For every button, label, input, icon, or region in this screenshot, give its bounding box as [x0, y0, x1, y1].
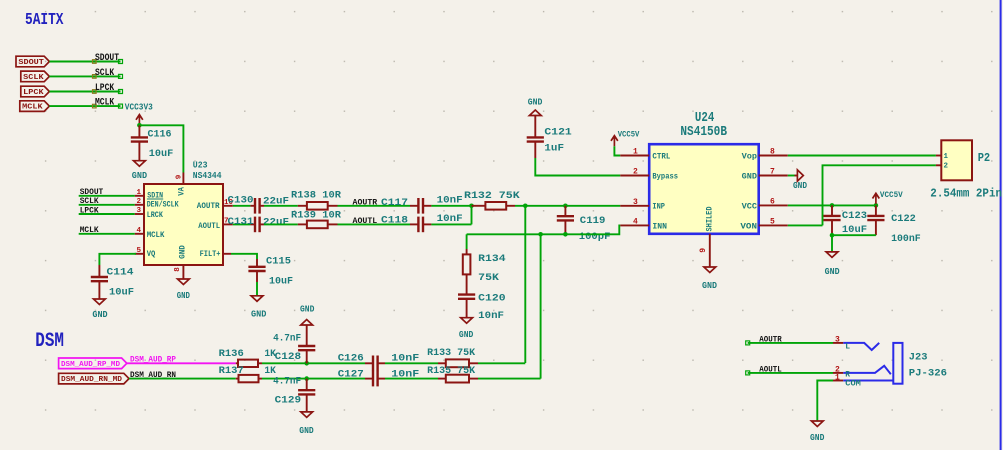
resistor R134	[463, 249, 506, 295]
sheet border right edge	[1000, 0, 1002, 450]
J23 pin 2 stub	[833, 366, 843, 375]
wire C126 to R133	[385, 362, 438, 364]
svg-text:8: 8	[174, 267, 182, 272]
wire U24 Vop to P2 pin1	[788, 155, 936, 157]
svg-text:1: 1	[136, 189, 141, 197]
U23 pin 9 VA stub	[175, 173, 183, 185]
svg-text:SHILED: SHILED	[706, 206, 715, 231]
junction VCC-C122	[874, 203, 879, 208]
audio jack J23 R contact	[843, 366, 891, 374]
svg-text:GND: GND	[92, 309, 108, 320]
junction INN-R135	[538, 232, 543, 237]
capacitor C120	[458, 293, 506, 322]
audio jack J23 COM contact	[843, 380, 893, 382]
svg-text:GND: GND	[825, 266, 840, 277]
J23 pin 3 stub	[833, 336, 843, 345]
wire C121 to U24 Bypass	[535, 158, 620, 176]
svg-text:9: 9	[175, 174, 183, 179]
wire C118 to mix node	[431, 223, 471, 225]
svg-text:GND: GND	[702, 280, 717, 291]
power flag VCC5V at C122	[873, 191, 903, 204]
hierarchical label LPCK_in	[21, 86, 50, 97]
svg-text:AOUTL: AOUTL	[198, 222, 220, 231]
svg-text:22uF: 22uF	[263, 217, 289, 229]
svg-text:VA: VA	[178, 187, 187, 196]
wire VCC5V to U24 CTRL	[614, 146, 620, 155]
svg-text:SCLK: SCLK	[23, 74, 44, 82]
svg-text:9: 9	[699, 248, 708, 253]
U24 pin 6 stub	[759, 198, 788, 207]
audio jack J23 L contact	[843, 343, 879, 350]
svg-text:VQ: VQ	[147, 250, 156, 259]
wire R139 to C118	[338, 223, 411, 225]
svg-text:4.7nF: 4.7nF	[273, 375, 301, 387]
hierarchical label MCLK_in	[20, 101, 50, 112]
svg-text:5: 5	[136, 247, 141, 255]
capacitor C117	[381, 195, 463, 214]
svg-text:100nF: 100nF	[891, 233, 921, 245]
ground C114	[92, 299, 108, 320]
IC U23 NS4344 body	[144, 184, 223, 265]
U23 pin 3 stub	[135, 207, 144, 215]
resistor R133	[427, 347, 478, 367]
capacitor C131	[228, 216, 290, 232]
wire DSM_AUD_RP highlighted	[127, 362, 236, 364]
svg-text:4: 4	[136, 227, 141, 235]
ground J23	[810, 421, 825, 443]
svg-text:1: 1	[835, 373, 840, 382]
ground U24 pin 9	[702, 267, 717, 291]
svg-text:C128: C128	[275, 351, 301, 363]
wire INP node down to R133	[524, 206, 526, 363]
svg-text:1: 1	[944, 153, 949, 161]
junction INP-C119	[563, 204, 568, 209]
svg-text:GND: GND	[177, 290, 190, 301]
svg-text:2: 2	[944, 162, 949, 170]
resistor R137	[219, 365, 277, 382]
svg-text:P2: P2	[978, 151, 991, 165]
svg-text:2: 2	[136, 198, 141, 206]
svg-text:C122: C122	[891, 213, 916, 225]
svg-text:SCLK: SCLK	[95, 68, 115, 79]
wire C117 to R132 node	[431, 205, 471, 207]
svg-text:VCC5V: VCC5V	[880, 191, 903, 200]
svg-text:C116: C116	[148, 128, 172, 140]
svg-text:C120: C120	[478, 293, 505, 305]
wire SDOUT	[49, 60, 122, 64]
U23 pin 5 stub	[135, 247, 144, 255]
U23 pin names right	[197, 202, 221, 259]
U24 pin 4 stub	[620, 218, 649, 227]
ground C115	[251, 296, 267, 320]
svg-text:MCLK: MCLK	[80, 226, 99, 235]
svg-text:AOUTL: AOUTL	[353, 217, 378, 226]
svg-text:VCC3V3: VCC3V3	[125, 102, 153, 113]
wire U24 VCC	[788, 204, 876, 206]
svg-text:10uF: 10uF	[149, 148, 174, 160]
svg-text:GND: GND	[793, 180, 807, 191]
svg-text:DSM_AUD_RN_MD: DSM_AUD_RN_MD	[61, 376, 123, 384]
wire R133 to INP node	[478, 362, 525, 364]
wire MCLK	[49, 104, 122, 108]
svg-text:PJ-326: PJ-326	[909, 367, 947, 379]
svg-text:75K: 75K	[478, 272, 499, 284]
svg-text:C131: C131	[228, 216, 254, 228]
svg-text:C121: C121	[544, 127, 571, 139]
wire C123 C122 ground bus	[832, 234, 876, 236]
U23 pin names left	[147, 191, 179, 259]
svg-text:SDOUT: SDOUT	[18, 59, 44, 67]
junction C129	[304, 376, 309, 381]
svg-text:10nF: 10nF	[478, 310, 504, 322]
svg-text:R138 10R: R138 10R	[291, 189, 342, 201]
wire U24 VON to P2 pin2	[788, 224, 823, 226]
svg-text:DSM_AUD_RP_MD: DSM_AUD_RP_MD	[61, 361, 121, 369]
svg-text:C129: C129	[275, 395, 301, 407]
svg-text:C115: C115	[266, 255, 291, 267]
wire VCC3V3 to U23 VA	[139, 125, 183, 172]
wire MCLK to U23	[79, 233, 135, 235]
U23 pin 2 stub	[135, 198, 144, 206]
wire J23 COM to ground	[817, 381, 833, 421]
svg-text:1: 1	[633, 148, 638, 157]
wire AOUTR to J23	[746, 341, 833, 345]
capacitor C115	[223, 254, 293, 296]
svg-text:GND: GND	[810, 432, 825, 443]
svg-text:GND: GND	[178, 245, 187, 259]
ground C116	[132, 161, 148, 181]
U24 pin 5 stub	[759, 218, 788, 227]
svg-text:C114: C114	[107, 266, 134, 278]
svg-text:SDOUT: SDOUT	[80, 188, 104, 197]
wire LPCK to U23	[79, 213, 135, 215]
svg-text:R136: R136	[219, 348, 244, 360]
U24 pin 2 stub	[620, 168, 649, 177]
wire C131 to R139	[264, 223, 298, 225]
svg-text:6: 6	[770, 198, 775, 207]
wire INN node down to R135	[540, 234, 542, 378]
wire R137 to C127	[262, 378, 365, 380]
svg-text:5AITX: 5AITX	[25, 11, 64, 30]
svg-text:Vop: Vop	[742, 152, 758, 161]
svg-text:1uF: 1uF	[544, 143, 564, 155]
svg-text:DEN/SCLK: DEN/SCLK	[147, 201, 179, 210]
wire R136 to C126	[262, 362, 365, 364]
svg-text:GND: GND	[251, 309, 267, 320]
svg-text:SDOUT: SDOUT	[95, 53, 119, 64]
svg-text:LPCK: LPCK	[95, 83, 115, 94]
svg-text:CTRL: CTRL	[652, 152, 670, 161]
svg-text:C119: C119	[580, 215, 606, 227]
junction VCC3V3	[137, 123, 142, 128]
wire DSM_AUD_RN	[129, 378, 236, 380]
svg-text:R132 75K: R132 75K	[464, 190, 520, 202]
svg-text:3: 3	[835, 336, 840, 345]
svg-text:R133 75K: R133 75K	[427, 347, 476, 359]
ground C120	[459, 318, 474, 341]
hierarchical label SCLK_in	[21, 71, 50, 82]
resistor R136	[219, 348, 277, 367]
P2 pin 2 stub	[936, 162, 949, 170]
svg-text:4.7nF: 4.7nF	[273, 333, 301, 345]
svg-text:GND: GND	[300, 303, 315, 314]
J23 pin names	[845, 343, 861, 389]
svg-text:COM: COM	[845, 380, 861, 389]
wire LPCK	[49, 90, 122, 94]
svg-text:NS4150B: NS4150B	[680, 124, 727, 140]
svg-text:MCLK: MCLK	[22, 104, 43, 112]
svg-text:R135 75K: R135 75K	[427, 365, 476, 377]
capacitor C129	[273, 375, 315, 411]
junction INN-C119	[563, 232, 568, 237]
resistor R138	[291, 189, 342, 209]
resistor R132	[464, 190, 520, 210]
svg-text:J23: J23	[909, 352, 928, 364]
junction INP-R133	[523, 204, 528, 209]
U24 pin 8 stub	[759, 148, 788, 157]
ground C121 flipped	[528, 96, 543, 115]
U23 pin 10 stub	[223, 199, 233, 207]
U23 pin 4 stub	[135, 227, 144, 235]
wire U23 FILT+ to C115	[231, 254, 257, 259]
svg-text:10nF: 10nF	[437, 213, 463, 225]
svg-text:R: R	[845, 371, 850, 380]
svg-text:2: 2	[633, 168, 638, 177]
svg-text:8: 8	[770, 148, 775, 157]
junction VCC-C123	[830, 203, 835, 208]
capacitor C121	[527, 116, 572, 159]
U24 pin 9 stub	[699, 234, 710, 267]
svg-text:LPCK: LPCK	[80, 206, 99, 215]
svg-text:C118: C118	[381, 215, 408, 227]
wire U23 VQ to C114	[99, 254, 136, 265]
U23 pin 7 stub	[223, 218, 233, 226]
wire SDOUT to U23	[79, 195, 135, 197]
capacitor C118	[381, 213, 463, 232]
svg-text:DSM: DSM	[35, 330, 64, 353]
svg-text:GND: GND	[459, 329, 474, 340]
svg-text:LRCK: LRCK	[147, 211, 163, 220]
capacitor C122	[867, 205, 920, 245]
resistor R139	[291, 209, 342, 228]
svg-text:C126: C126	[338, 353, 364, 365]
svg-text:VCC: VCC	[742, 202, 758, 211]
ground C129	[299, 412, 314, 436]
svg-text:MCLK: MCLK	[147, 231, 165, 240]
svg-text:C117: C117	[381, 197, 408, 209]
wire R138 to C117	[338, 205, 411, 207]
svg-text:Bypass: Bypass	[652, 172, 678, 181]
svg-text:7: 7	[770, 168, 775, 177]
wire C130 to R138	[264, 205, 298, 207]
resistor R135	[427, 365, 478, 382]
capacitor C128	[273, 325, 315, 363]
capacitor C126	[338, 353, 420, 372]
svg-text:2.54mm 2Pin: 2.54mm 2Pin	[930, 188, 1002, 201]
svg-text:4: 4	[633, 218, 638, 227]
wire INN bus to R134	[466, 234, 468, 249]
svg-text:NS4344: NS4344	[193, 170, 222, 181]
svg-text:R139 10R: R139 10R	[291, 209, 342, 221]
capacitor C119	[557, 206, 611, 243]
U23 pin 8 GND stub	[174, 265, 183, 279]
svg-text:C130: C130	[228, 195, 254, 207]
ground C128 flipped	[300, 303, 315, 325]
svg-text:MCLK: MCLK	[95, 98, 115, 109]
svg-text:GND: GND	[742, 172, 758, 181]
U24 pin 1 stub	[620, 148, 649, 157]
svg-text:LPCK: LPCK	[23, 89, 44, 97]
svg-text:VCC5V: VCC5V	[618, 131, 640, 140]
svg-text:VON: VON	[740, 222, 757, 231]
svg-text:100pF: 100pF	[579, 231, 611, 243]
P2 pin 1 stub	[936, 153, 949, 161]
wire pin7 to C131	[233, 223, 251, 225]
IC U24 NS4150B body	[649, 144, 759, 234]
wire AOUTL to J23	[746, 371, 833, 375]
svg-text:3: 3	[633, 198, 638, 207]
capacitor C123	[823, 205, 867, 236]
wire SCLK to U23	[79, 204, 135, 206]
junction C128	[304, 361, 309, 366]
capacitor C116	[131, 125, 174, 160]
svg-text:GND: GND	[132, 170, 148, 181]
svg-text:FILT+: FILT+	[200, 250, 221, 259]
svg-text:AOUTR: AOUTR	[353, 198, 378, 207]
svg-text:INP: INP	[652, 203, 665, 212]
wire INN bus	[467, 225, 621, 234]
hierarchical label SDOUT_in	[16, 56, 49, 67]
svg-text:R134: R134	[478, 253, 505, 265]
svg-text:10uF: 10uF	[842, 224, 867, 236]
ground C123	[825, 252, 840, 277]
U24 pin 7 stub	[759, 168, 788, 177]
wire pin10 to C130	[233, 205, 251, 207]
junction mix node	[469, 204, 474, 209]
capacitor C130	[228, 195, 290, 214]
svg-text:L: L	[845, 343, 850, 352]
ground U23 pin 8	[177, 279, 190, 301]
J23 pin 1 stub	[833, 373, 843, 382]
wire R135 to INN node	[478, 378, 541, 380]
connector P2 body	[941, 140, 972, 180]
power flag VCC3V3	[125, 102, 153, 126]
svg-text:10uF: 10uF	[269, 275, 293, 287]
wire mix node drop	[471, 206, 473, 225]
svg-text:SCLK: SCLK	[80, 197, 99, 206]
svg-text:3: 3	[136, 207, 141, 215]
svg-text:C123: C123	[842, 210, 867, 222]
svg-text:AOUTR: AOUTR	[197, 202, 220, 211]
wire SCLK	[49, 74, 122, 78]
svg-text:GND: GND	[299, 425, 314, 436]
svg-text:GND: GND	[528, 96, 543, 107]
U24 pin 3 stub	[620, 198, 649, 207]
U23 pin 1 stub	[135, 189, 144, 197]
wire C127 to R135	[385, 378, 438, 380]
svg-text:10uF: 10uF	[109, 286, 134, 298]
audio jack J23 sleeve	[893, 343, 902, 384]
power flag VCC5V at CTRL	[611, 131, 640, 147]
wire R132 to U24 INP	[515, 205, 620, 207]
capacitor C127	[338, 368, 420, 386]
svg-text:INN: INN	[652, 222, 667, 231]
wire to ground	[831, 235, 833, 252]
hierarchical label DSM_AUD_RN_MD	[59, 373, 129, 384]
ground U24 pin 7	[788, 170, 807, 191]
capacitor C114	[91, 266, 134, 299]
hierarchical label DSM_AUD_RP_MD	[59, 358, 127, 369]
svg-text:5: 5	[770, 218, 775, 227]
svg-text:R137: R137	[219, 365, 244, 377]
junction ground bus	[830, 233, 835, 238]
svg-text:C127: C127	[338, 368, 364, 380]
